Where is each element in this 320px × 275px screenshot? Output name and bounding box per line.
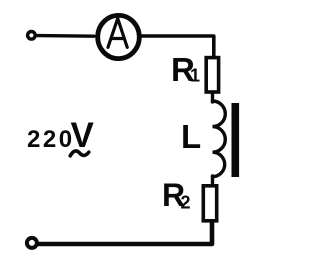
terminal bottom-left xyxy=(27,238,37,248)
svg-text:L: L xyxy=(181,118,201,155)
iron core bar xyxy=(232,103,240,177)
svg-text:1: 1 xyxy=(190,66,200,86)
AC tilde symbol xyxy=(70,151,89,156)
wire top (terminal to ammeter) xyxy=(38,34,95,38)
resistor R1 xyxy=(206,58,218,92)
terminal top-left xyxy=(28,32,36,40)
wire bottom (R2 down, left to terminal) xyxy=(39,222,213,245)
wire top-right (ammeter to corner, down to R1) xyxy=(142,36,214,58)
wire (coil to R2) xyxy=(211,176,214,186)
svg-text:V: V xyxy=(71,116,95,155)
ammeter letter A xyxy=(108,19,127,48)
resistor R2 xyxy=(203,186,216,221)
svg-text:2: 2 xyxy=(181,193,191,213)
ammeter U1 xyxy=(98,15,140,58)
inductor L coil xyxy=(213,101,226,177)
svg-text:220: 220 xyxy=(27,126,75,153)
wire (R1 to coil) xyxy=(211,93,214,102)
